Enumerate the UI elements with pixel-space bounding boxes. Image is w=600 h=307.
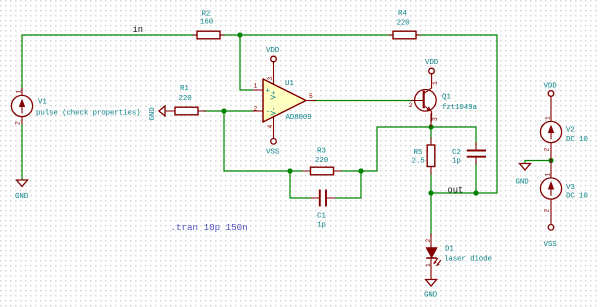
transistor Q1 fzt1049a [409,74,478,127]
svg-text:laser diode: laser diode [444,256,492,264]
svg-text:C1: C1 [317,212,326,220]
op-amp pin 5 lead [306,100,316,102]
svg-text:4: 4 [267,125,274,129]
ground GND at V2/V3 mid [516,164,531,187]
wire R2 right to R4 left [220,34,393,36]
svg-text:R5: R5 [414,149,423,157]
voltage source V1 [11,88,140,125]
op-amp pin 2 lead [253,110,263,112]
resistor R4 [389,10,420,39]
capacitor C2 [452,143,486,166]
svg-text:GND: GND [424,292,438,300]
D1 cathode lead [430,258,432,279]
svg-text:pulse (check properties): pulse (check properties) [36,110,140,118]
wire C1 right branch [335,171,361,198]
D1 body triangle [426,248,437,258]
V2 pin 1 lead [550,103,552,122]
svg-text:R1: R1 [180,85,189,93]
svg-text:D1: D1 [445,246,454,254]
Q1 base bar [423,91,425,109]
junction at C2/out [473,190,478,195]
junction at R3 left / C1 left [287,168,292,173]
wire R3 right to corner [341,127,476,171]
wire pin2 node down to R3 row [224,111,303,171]
svg-text:V+: V+ [271,90,279,99]
op-amp pin 3 lead (V+) [273,62,275,84]
svg-text:VSS: VSS [544,241,558,249]
svg-text:VDD: VDD [425,59,439,67]
op-amp pin 1 lead [253,89,263,91]
Q1 emitter lead to node [430,114,432,128]
V1 pin 2 lead [21,117,23,126]
svg-text:R4: R4 [398,10,407,18]
wire R5 bottom to out node [430,173,432,193]
svg-text:V2: V2 [566,126,575,134]
Q1 base lead [411,100,424,102]
svg-text:DC 10: DC 10 [566,136,588,144]
wire out net row [431,192,497,194]
wire emitter node to R5 top [430,127,432,139]
svg-text:1: 1 [16,90,23,94]
svg-text:2: 2 [409,102,413,109]
svg-text:1: 1 [254,83,258,90]
svg-text:GND: GND [516,179,530,187]
V2 pin 2 lead [550,143,552,161]
svg-text:V3: V3 [566,184,575,192]
svg-text:3: 3 [432,117,439,121]
svg-text:5: 5 [309,93,313,100]
D1 cathode bar [426,257,437,259]
junction at R2/R4 node [237,32,242,37]
D1 anode lead [430,234,432,248]
svg-text:1: 1 [432,81,439,85]
svg-text:3: 3 [267,77,274,81]
svg-text:.tran 10p 150n: .tran 10p 150n [171,222,248,233]
svg-text:2: 2 [425,239,432,243]
wire C1 left branch [290,171,311,198]
svg-text:220: 220 [179,95,193,103]
voltage source V3 [540,161,588,225]
V3 pin 1 lead [550,161,552,179]
wire V1 bottom to GND [21,125,23,179]
svg-text:2: 2 [544,209,551,213]
power VDD above U1 [266,47,280,62]
Q1 emitter arrow [426,107,431,112]
svg-text:VSS: VSS [266,149,280,157]
svg-text:-: - [266,109,270,117]
wire node in-2 down to op-amp pin1 [240,35,253,90]
V3 arrow [550,187,552,196]
wire R1 right to op-amp pin2 [203,110,253,112]
svg-text:VDD: VDD [544,83,558,91]
svg-text:R2: R2 [202,11,211,19]
svg-text:2.5: 2.5 [412,158,426,166]
svg-text:2: 2 [544,148,551,152]
svg-text:VDD: VDD [266,47,280,55]
svg-text:160: 160 [200,19,214,27]
svg-text:out: out [448,185,464,195]
op-amp U1 AD8009 [253,62,316,139]
resistor R1 [165,85,206,115]
wire C2 bottom to out row [475,162,477,193]
Q1 collector [424,74,432,94]
ground GND at R1 left [149,106,165,121]
voltage source V2 [540,103,588,161]
junction at R5/out [428,190,433,195]
junction at R1/pin2 node [221,108,226,113]
resistor R3 [303,148,341,175]
resistor R2 [193,11,224,39]
svg-text:2: 2 [15,121,22,125]
wire out node down to D1 [430,193,432,236]
svg-text:V1: V1 [38,99,47,107]
ground GND below V1 [15,180,29,201]
wire V2/V3 mid node to GND stub [525,161,551,164]
V1 arrow [21,104,23,113]
power VSS right column [544,225,558,249]
op-amp pin 4 lead (V-) [273,117,275,139]
power VDD right column [544,83,558,104]
junction at V2/V3 mid node [548,158,553,163]
svg-text:U1: U1 [285,80,294,88]
svg-text:1: 1 [425,263,432,267]
svg-text:GND: GND [15,193,29,201]
V3 pin 2 lead [550,199,552,224]
svg-text:in: in [133,25,144,35]
svg-text:GND: GND [149,107,157,121]
V2 arrow [550,130,552,139]
wire feedback R4 right down to out [416,35,497,193]
resistor R5 [412,138,435,174]
svg-text:220: 220 [315,157,329,165]
V1 pin 1 lead [21,88,23,96]
junction at Q1 emitter node [428,124,433,129]
svg-text:1p: 1p [317,222,326,230]
svg-text:C2: C2 [452,149,461,157]
svg-text:1: 1 [545,173,552,177]
diode D1 laser diode [425,234,492,279]
svg-text:fzt1049a: fzt1049a [442,104,477,112]
Q1 emitter [424,106,432,122]
power VSS below U1 [266,139,280,157]
capacitor C1 [311,190,335,230]
svg-text:220: 220 [397,20,411,28]
wire op-amp out to Q1 base [311,100,413,102]
svg-text:R3: R3 [317,148,326,156]
svg-text:V-: V- [271,107,279,116]
svg-text:1: 1 [545,116,552,120]
svg-text:AD8009: AD8009 [286,114,312,122]
junction at R3 right / C1 right [358,168,363,173]
svg-text:DC 10: DC 10 [566,192,588,200]
wire in net: V1 top to R2 left [22,35,197,90]
svg-text:2: 2 [254,106,258,113]
svg-text:Q1: Q1 [442,94,451,102]
power VDD above Q1 [425,59,439,74]
D1 emission arrows [434,259,438,264]
ground GND below D1 [424,280,438,300]
svg-text:1p: 1p [452,158,461,166]
